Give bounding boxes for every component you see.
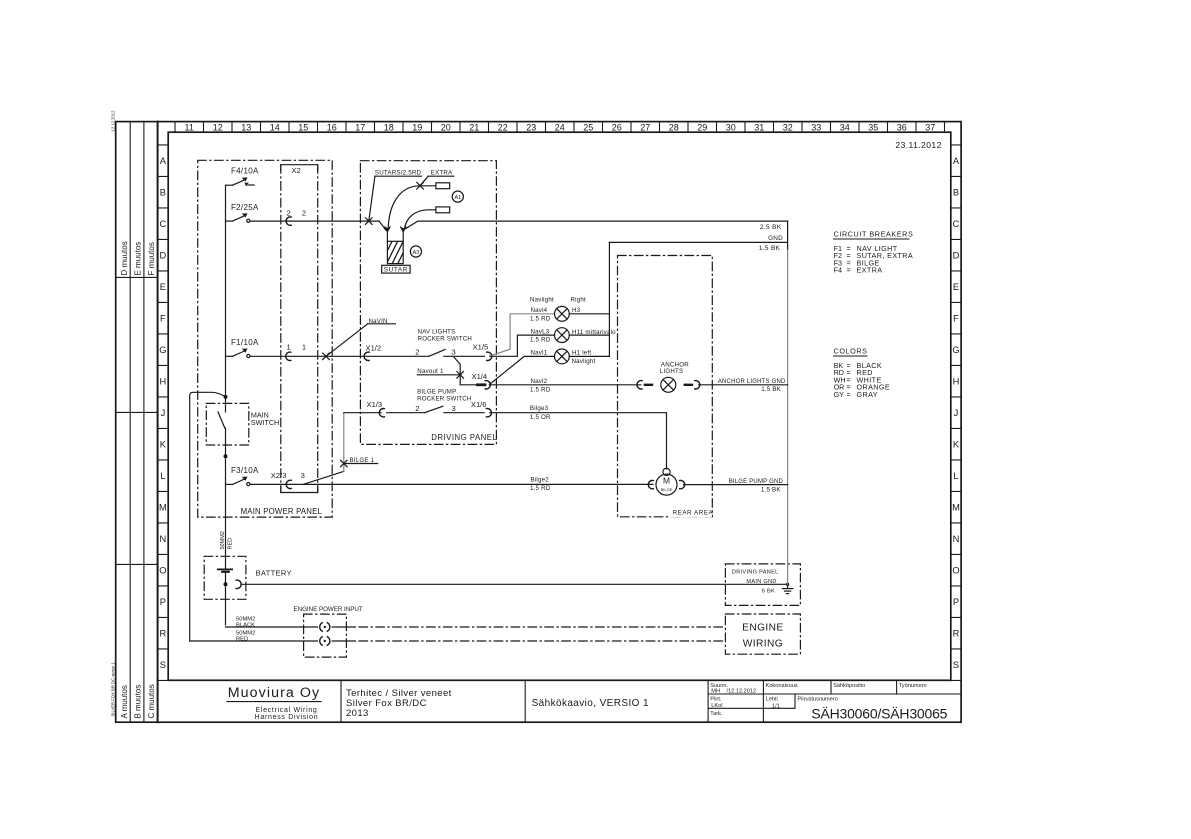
svg-text:SWITCH: SWITCH <box>251 418 279 427</box>
svg-text:F4: F4 <box>834 266 842 275</box>
svg-text:=: = <box>847 390 851 399</box>
svg-text:23: 23 <box>526 122 536 132</box>
wire engine black dash-dot <box>332 626 355 628</box>
svg-text:12.12.2012: 12.12.2012 <box>111 110 116 132</box>
svg-text:Sähköpositio: Sähköpositio <box>833 683 865 689</box>
svg-text:X1/3: X1/3 <box>367 400 383 409</box>
svg-text:A: A <box>953 156 960 166</box>
svg-text:R: R <box>160 629 167 639</box>
svg-text:B: B <box>953 188 959 198</box>
driving panel box <box>360 161 496 445</box>
lamp return wires <box>569 242 609 356</box>
wire to sutar left pin <box>379 221 386 230</box>
svg-text:R: R <box>953 629 960 639</box>
svg-text:11: 11 <box>185 122 194 132</box>
svg-text:COLORS: COLORS <box>834 347 868 356</box>
svg-text:D muutos: D muutos <box>120 241 129 275</box>
svg-text:C: C <box>160 219 167 229</box>
extra connector 1 <box>436 183 450 189</box>
svg-text:6 BK: 6 BK <box>762 588 775 594</box>
svg-text:/12.12.2012: /12.12.2012 <box>727 689 757 695</box>
svg-text:37: 37 <box>925 122 935 132</box>
svg-text:2013: 2013 <box>346 708 369 719</box>
svg-text:LKol: LKol <box>711 703 722 709</box>
svg-text:3: 3 <box>452 404 456 413</box>
svg-text:F2/25A: F2/25A <box>231 203 259 212</box>
svg-text:NAV LIGHTS: NAV LIGHTS <box>418 329 456 336</box>
svg-text:1.5 RD: 1.5 RD <box>530 386 551 393</box>
svg-text:Navl4: Navl4 <box>531 307 548 314</box>
svg-text:GY: GY <box>834 390 845 399</box>
svg-text:1/1: 1/1 <box>772 703 780 709</box>
svg-text:C muutos: C muutos <box>147 684 156 718</box>
svg-text:18: 18 <box>384 122 394 132</box>
svg-text:Piirustusnumero: Piirustusnumero <box>797 697 837 703</box>
svg-text:2: 2 <box>287 208 291 217</box>
svg-text:EXTRA: EXTRA <box>431 169 453 176</box>
svg-text:2: 2 <box>302 208 306 217</box>
wire anchor gnd <box>699 384 788 386</box>
svg-text:ENGINE: ENGINE <box>742 623 783 634</box>
node bus-main-switch top <box>224 395 228 399</box>
svg-text:BATTERY: BATTERY <box>256 569 292 578</box>
svg-text:H: H <box>953 377 960 387</box>
svg-text:GND: GND <box>768 235 783 242</box>
svg-text:16: 16 <box>327 122 337 132</box>
sutar name box <box>382 265 410 273</box>
extra label <box>420 169 454 185</box>
svg-text:3: 3 <box>452 348 456 357</box>
svg-text:M: M <box>952 503 960 513</box>
svg-text:E: E <box>160 282 166 292</box>
wire navl2 1.5RD <box>490 384 641 386</box>
svg-text:Right: Right <box>571 297 587 304</box>
navin label <box>326 318 395 356</box>
svg-text:34: 34 <box>840 122 850 132</box>
engine input connector 2 <box>320 637 330 646</box>
battery connector <box>236 580 241 588</box>
node main gnd <box>786 583 789 586</box>
svg-text:MH: MH <box>711 689 720 695</box>
svg-text:22: 22 <box>498 122 508 132</box>
svg-text:ANCHOR LIGHTS GND: ANCHOR LIGHTS GND <box>718 379 786 385</box>
svg-text:C: C <box>953 219 960 229</box>
svg-text:=: = <box>847 266 851 275</box>
svg-text:BILGE PUMP: BILGE PUMP <box>417 388 456 395</box>
svg-text:Bilge2: Bilge2 <box>531 476 550 483</box>
title block company cell <box>227 685 321 721</box>
designator A1 <box>452 191 463 202</box>
wire F2 output 2.5RD <box>250 220 379 222</box>
connector X1/3 <box>367 400 385 417</box>
svg-text:17: 17 <box>355 122 365 132</box>
wire bilge3 1.5OR <box>490 413 667 469</box>
anchor lamp <box>661 377 676 392</box>
svg-text:Navlight: Navlight <box>530 297 554 304</box>
svg-text:B muutos: B muutos <box>134 685 143 719</box>
wire main gnd <box>241 583 788 585</box>
wire gnd 1.5BK <box>609 241 787 243</box>
svg-text:DRIVING PANEL: DRIVING PANEL <box>431 433 497 442</box>
svg-text:33: 33 <box>811 122 821 132</box>
svg-text:24: 24 <box>555 122 565 132</box>
svg-text:Kokonaisuus: Kokonaisuus <box>766 683 798 689</box>
wire 50mm2 black <box>226 626 318 628</box>
engine input connector 1 <box>320 623 330 632</box>
wire battery return <box>190 392 226 641</box>
svg-text:Bilge3: Bilge3 <box>530 405 549 412</box>
svg-text:L: L <box>160 471 165 481</box>
svg-text:Navlight: Navlight <box>572 358 596 365</box>
svg-text:2: 2 <box>415 404 419 413</box>
svg-text:25: 25 <box>583 122 593 132</box>
svg-text:SILVER FOX BR DC versio 1: SILVER FOX BR DC versio 1 <box>111 661 116 716</box>
wire sutar right to 2.5BK <box>406 221 788 228</box>
svg-text:2: 2 <box>415 348 419 357</box>
svg-text:D: D <box>160 251 167 261</box>
connector X1/4 <box>472 372 491 389</box>
connector X2 pin 3 <box>271 471 305 489</box>
svg-text:H: H <box>160 377 167 387</box>
svg-text:CIRCUIT BREAKERS: CIRCUIT BREAKERS <box>834 230 914 239</box>
svg-text:ROCKER SWITCH: ROCKER SWITCH <box>418 336 472 343</box>
svg-text:F3/10A: F3/10A <box>231 466 259 475</box>
svg-text:X1/5: X1/5 <box>473 343 489 352</box>
anchor light connector left <box>637 381 652 389</box>
svg-text:D: D <box>953 251 960 261</box>
lamp H11 <box>555 328 570 343</box>
battery cable labels <box>220 531 234 549</box>
svg-text:EXTRA: EXTRA <box>857 266 883 275</box>
lamp H1 <box>555 349 570 364</box>
svg-text:31: 31 <box>754 122 764 132</box>
sutar pins <box>385 227 406 242</box>
svg-text:30: 30 <box>726 122 736 132</box>
navout1 label <box>417 368 460 375</box>
circuit breaker F4 <box>226 167 259 186</box>
svg-text:WIRING: WIRING <box>743 639 783 650</box>
wire bilge pump gnd <box>684 484 788 486</box>
svg-text:J: J <box>954 408 959 418</box>
svg-text:1.5 RD: 1.5 RD <box>530 337 551 344</box>
designator A3 <box>410 246 421 257</box>
wire bilge2 1.5RD <box>250 483 653 485</box>
svg-text:F: F <box>160 314 166 324</box>
anchor light connector right <box>685 381 700 389</box>
svg-text:1.5 BK: 1.5 BK <box>761 386 781 393</box>
svg-text:1.5 BK: 1.5 BK <box>761 487 781 494</box>
svg-text:A muutos: A muutos <box>120 685 129 718</box>
svg-text:Lehti: Lehti <box>766 697 778 703</box>
circuit breaker F1 <box>226 338 259 356</box>
wire bilge1 <box>303 471 344 484</box>
bilge pump motor M <box>656 468 677 495</box>
svg-text:3: 3 <box>301 471 305 480</box>
connector X1/6 <box>471 400 492 417</box>
main dc bus <box>225 185 227 412</box>
nav wire labels <box>530 297 616 394</box>
svg-text:27: 27 <box>640 122 650 132</box>
svg-text:Työnumero: Työnumero <box>899 683 927 689</box>
lamp H3 <box>555 306 570 321</box>
wire 50mm2 red <box>190 640 318 642</box>
svg-text:B: B <box>160 188 166 198</box>
svg-text:G: G <box>952 345 959 355</box>
svg-text:1.5 BK: 1.5 BK <box>759 245 781 252</box>
svg-text:1.5 OR: 1.5 OR <box>530 414 551 421</box>
svg-text:A1: A1 <box>455 195 462 201</box>
wire navl1 <box>490 356 555 384</box>
title block fields <box>710 683 926 717</box>
svg-text:J: J <box>161 408 166 418</box>
anchor lights label <box>660 361 689 375</box>
svg-text:SUTARS/2.5RD: SUTARS/2.5RD <box>375 169 422 176</box>
svg-text:36: 36 <box>897 122 907 132</box>
svg-text:DRIVING PANEL: DRIVING PANEL <box>732 570 779 576</box>
rear area label <box>670 508 712 517</box>
svg-text:F4/10A: F4/10A <box>231 167 259 176</box>
svg-text:Navout 1: Navout 1 <box>417 368 444 375</box>
connector X1/2 <box>364 343 381 360</box>
engine wiring label <box>742 623 783 650</box>
bilge gnd labels <box>729 479 784 494</box>
svg-text:F muutos: F muutos <box>147 242 156 275</box>
svg-text:2.5 BK: 2.5 BK <box>760 224 782 231</box>
svg-text:GRAY: GRAY <box>857 390 878 399</box>
wire extra 2 curve <box>405 210 436 229</box>
driving panel gnd box <box>725 564 800 606</box>
svg-text:29: 29 <box>697 122 707 132</box>
border frame <box>116 122 961 723</box>
svg-text:X2: X2 <box>292 166 301 175</box>
svg-text:RED: RED <box>227 538 233 550</box>
svg-text:BILGE: BILGE <box>661 487 673 492</box>
svg-text:Muoviura Oy: Muoviura Oy <box>228 685 321 701</box>
circuit breaker F3 <box>226 466 259 484</box>
bilge rocker switch <box>387 388 484 413</box>
svg-text:K: K <box>160 440 167 450</box>
svg-text:ROCKER SWITCH: ROCKER SWITCH <box>417 395 471 402</box>
main switch box <box>206 403 249 445</box>
svg-text:32: 32 <box>783 122 793 132</box>
svg-text:H3: H3 <box>572 307 581 314</box>
battery box <box>204 556 246 599</box>
svg-text:H1 left: H1 left <box>572 350 591 357</box>
wire F1 output <box>250 355 429 357</box>
svg-text:Navl1: Navl1 <box>531 350 548 357</box>
svg-text:N: N <box>953 534 960 544</box>
title block <box>341 680 961 722</box>
svg-text:Piirt.: Piirt. <box>710 697 722 703</box>
circuit breaker F2 <box>226 203 259 221</box>
main switch S1 <box>218 410 279 428</box>
nav rocker switch <box>415 329 484 357</box>
svg-text:G: G <box>159 345 166 355</box>
sutar label <box>369 169 422 221</box>
svg-text:REAR AREA: REAR AREA <box>673 510 714 517</box>
anchor gnd labels <box>718 379 786 393</box>
svg-text:BILGE PUMP GND: BILGE PUMP GND <box>729 479 784 485</box>
svg-text:1: 1 <box>287 342 291 351</box>
svg-text:19: 19 <box>412 122 422 132</box>
svg-text:12: 12 <box>213 122 223 132</box>
svg-text:13: 13 <box>241 122 251 132</box>
svg-text:Sähkökaavio, VERSIO 1: Sähkökaavio, VERSIO 1 <box>532 698 649 709</box>
svg-text:A3: A3 <box>413 250 420 256</box>
svg-text:L: L <box>953 471 958 481</box>
driving panel gnd labels <box>732 570 779 595</box>
svg-text:S: S <box>953 660 959 670</box>
node navin tap <box>323 353 330 360</box>
svg-text:LIGHTS: LIGHTS <box>660 368 684 375</box>
motor connector right <box>680 480 685 488</box>
sutar block <box>380 239 432 265</box>
svg-text:O: O <box>952 566 959 576</box>
svg-text:23.11.2012: 23.11.2012 <box>895 140 941 150</box>
rear area box <box>618 256 713 517</box>
svg-text:NavL3: NavL3 <box>531 329 550 336</box>
svg-text:MAIN POWER PANEL: MAIN POWER PANEL <box>241 507 323 516</box>
svg-text:SUTAR: SUTAR <box>384 267 408 274</box>
svg-text:E muutos: E muutos <box>134 242 143 276</box>
connector X2 pin 2 <box>286 217 291 225</box>
row letter bands <box>158 145 962 681</box>
engine wiring box <box>725 614 800 654</box>
svg-text:A: A <box>160 156 167 166</box>
svg-text:BLACK: BLACK <box>236 622 255 628</box>
svg-text:1.5 RD: 1.5 RD <box>530 485 551 492</box>
column number band <box>175 122 945 133</box>
svg-text:ENGINE POWER INPUT: ENGINE POWER INPUT <box>294 606 363 613</box>
svg-text:E: E <box>953 282 959 292</box>
main power panel box <box>198 160 333 517</box>
svg-text:Navl2: Navl2 <box>531 378 548 385</box>
svg-text:20: 20 <box>441 122 451 132</box>
svg-text:X1/2: X1/2 <box>366 343 382 352</box>
node battery junction <box>224 582 228 586</box>
connector X2 bracket <box>281 165 318 493</box>
svg-text:1.5 RD: 1.5 RD <box>530 315 551 322</box>
svg-text:H11 mittarivalo: H11 mittarivalo <box>572 329 616 336</box>
svg-text:28: 28 <box>669 122 679 132</box>
svg-text:K: K <box>953 440 960 450</box>
wire extra 1 curve <box>388 186 436 229</box>
svg-text:X1/4: X1/4 <box>472 372 488 381</box>
svg-text:35: 35 <box>868 122 878 132</box>
svg-text:14: 14 <box>270 122 280 132</box>
wire right gnd bus <box>787 221 789 250</box>
svg-text:50MM2: 50MM2 <box>220 531 226 549</box>
colors legend <box>834 347 890 399</box>
engine power input box <box>304 614 347 657</box>
extra connector 2 <box>436 207 450 213</box>
battery 12V <box>218 569 292 625</box>
svg-text:Tark.: Tark. <box>710 711 723 717</box>
svg-text:F1/10A: F1/10A <box>231 338 259 347</box>
svg-text:Harness Division: Harness Division <box>255 714 319 721</box>
node sutar tap <box>366 218 373 225</box>
svg-text:F: F <box>953 314 959 324</box>
svg-text:M: M <box>663 476 670 486</box>
svg-text:Electrical Wiring: Electrical Wiring <box>255 707 317 714</box>
svg-text:X2/3: X2/3 <box>271 471 287 480</box>
connector X2 pin 1 <box>286 352 291 360</box>
wire navl3 1.5RD <box>490 335 555 356</box>
title block project cell <box>346 688 649 719</box>
svg-text:X1/6: X1/6 <box>471 400 487 409</box>
svg-text:15: 15 <box>298 122 308 132</box>
svg-text:P: P <box>160 597 166 607</box>
motor connector left <box>648 480 653 488</box>
svg-text:S: S <box>160 660 166 670</box>
node bus-main-switch bottom <box>224 454 228 458</box>
svg-text:SÄH30060/SÄH30065: SÄH30060/SÄH30065 <box>811 706 947 722</box>
svg-text:O: O <box>159 566 166 576</box>
wire navl4 1.5RD <box>490 314 555 356</box>
wire navout1 <box>454 357 478 385</box>
svg-text:MAIN GND: MAIN GND <box>746 579 776 585</box>
bilge1 label <box>344 457 377 464</box>
wire engine red dash-dot <box>332 640 355 642</box>
svg-text:P: P <box>953 597 959 607</box>
svg-text:M: M <box>159 503 167 513</box>
svg-text:N: N <box>160 534 167 544</box>
svg-text:26: 26 <box>612 122 622 132</box>
connector X1/5 <box>473 343 492 361</box>
circuit breakers legend <box>834 230 914 275</box>
svg-text:21: 21 <box>469 122 479 132</box>
revision column labels <box>111 110 157 719</box>
svg-text:1: 1 <box>302 342 306 351</box>
ground <box>782 584 792 593</box>
